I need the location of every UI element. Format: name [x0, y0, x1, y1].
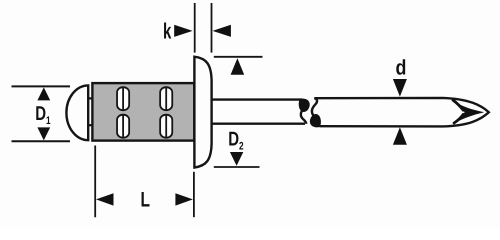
rivet body sleeve: [92, 83, 194, 141]
dimension D1 top extension line: [12, 85, 71, 87]
dimension L left-pointing arrow: [96, 193, 114, 205]
mandrel left segment bottom line: [212, 122, 306, 124]
dimension D1 down arrow: [37, 127, 50, 140]
slot bottom-left: [117, 115, 129, 138]
slot bottom-right: [160, 115, 172, 138]
mandrel right segment outline with pointed tip: [314, 98, 489, 127]
rivet flange: [194, 57, 211, 168]
dimension D2 up arrow: [231, 58, 245, 74]
dimension D1 bottom extension line: [12, 140, 71, 142]
neck stub top: [88, 97, 93, 99]
mandrel tip dart: [453, 100, 484, 124]
dimension d down arrow: [393, 79, 407, 97]
neck stub bottom: [88, 124, 93, 126]
slot top-left: [117, 87, 129, 110]
break symbol left lobe: [299, 99, 310, 112]
mandrel tip dart lower tail: [454, 114, 463, 123]
dimension D2 down arrow: [230, 152, 243, 166]
break symbol left S-curve: [301, 100, 307, 124]
dimension k left extension line: [194, 3, 196, 53]
dimension k right extension line: [211, 3, 213, 53]
dimension D2 top extension line: [214, 56, 263, 58]
dimension D2 bottom extension line: [214, 166, 260, 168]
dimension L left extension line: [94, 146, 96, 218]
dimension k left-pointing arrow: [213, 25, 231, 37]
break symbol right S-curve: [312, 98, 318, 126]
mandrel tip dart upper tail: [453, 100, 463, 110]
dimension L right-pointing arrow: [175, 193, 193, 205]
dimension k right-pointing arrow: [174, 25, 192, 37]
svg-text:L: L: [141, 188, 151, 211]
dimension d up arrow: [393, 127, 407, 145]
svg-text:d: d: [396, 56, 407, 79]
dimension D1 up arrow: [37, 87, 50, 100]
break symbol right lobe: [310, 114, 321, 127]
svg-text:k: k: [163, 18, 172, 43]
slot top-right: [160, 87, 172, 110]
mandrel left segment top line: [212, 98, 302, 100]
rivet dome head: [66, 85, 88, 140]
dimension L right extension line: [193, 172, 195, 217]
